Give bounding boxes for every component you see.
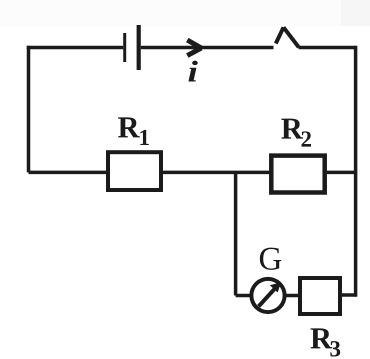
wire junction down to galvanometer xyxy=(236,294,252,298)
label G xyxy=(260,248,281,270)
wire left vertical xyxy=(27,46,31,173)
node junction vertical wire xyxy=(234,172,238,295)
wire R2 to right vertical xyxy=(327,171,356,175)
battery cell xyxy=(125,25,139,70)
label R1 xyxy=(118,117,149,145)
wire top-left segment xyxy=(27,46,123,50)
galvanometer G xyxy=(251,279,284,312)
switch S (open) xyxy=(276,27,299,47)
resistor R3 xyxy=(300,278,340,314)
current direction arrow xyxy=(187,40,201,56)
wire switch to top-right corner xyxy=(299,46,356,50)
wire battery to switch xyxy=(141,46,274,50)
label R3 xyxy=(311,328,341,356)
wire R3 to right vertical xyxy=(342,293,356,297)
label i (current) xyxy=(188,61,197,82)
wire R1 to R2 xyxy=(163,171,271,175)
label R2 xyxy=(281,119,311,147)
wire galvanometer to R3 xyxy=(285,294,301,298)
wire middle left to R1 xyxy=(29,171,108,175)
wire right vertical xyxy=(354,46,358,297)
background corner shading xyxy=(0,0,370,26)
resistor R2 xyxy=(271,156,324,193)
resistor R1 xyxy=(108,152,161,190)
